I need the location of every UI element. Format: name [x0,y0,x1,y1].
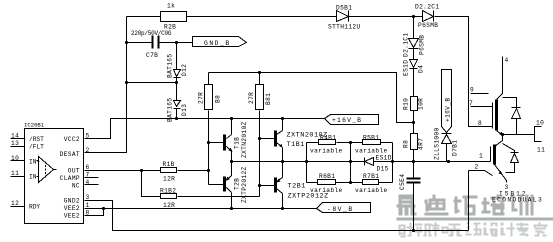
pin stub CLAMP [85,177,99,179]
capacitor C7B 220p/50V/C0G [127,30,193,59]
resistor R8 4R7 [403,134,425,151]
wire base tie left [208,143,210,185]
svg-text:11: 11 [537,147,545,154]
svg-text:27R: 27R [248,92,255,104]
svg-text:VEE2: VEE2 [64,213,80,220]
svg-text:4R7: 4R7 [418,138,425,150]
resistor B8 27R [198,73,222,143]
svg-text:7: 7 [469,100,473,107]
svg-text:R1B2: R1B2 [160,188,176,195]
diode D13 BAT165 [167,83,189,123]
svg-text:P6SMB: P6SMB [418,22,438,29]
diode D7B1 ZLLS1000 [434,127,459,161]
wire y=83 stub [127,82,177,84]
emitter [497,131,503,136]
svg-text:VCC2: VCC2 [64,136,80,143]
driver IC20B1 [11,122,99,224]
diode D12 BAT165 [175,41,178,44]
wire top run y=16 [127,16,161,18]
svg-text:10: 10 [11,155,19,162]
svg-text:D2.1C1: D2.1C1 [403,33,410,57]
svg-text:1k: 1k [167,3,175,10]
svg-text:4: 4 [505,57,509,64]
wire network verticals [306,143,308,183]
svg-text:R5B1: R5B1 [363,134,379,141]
resistor R7B1 variable [355,173,388,194]
svg-text:B81: B81 [265,93,272,105]
wire top row [307,142,319,144]
diode D2.2C1 P6SMB [415,4,439,30]
svg-text:D7B1: D7B1 [452,140,459,156]
svg-text:T1B1: T1B1 [287,141,305,149]
svg-text:C5E4: C5E4 [399,174,406,190]
transistor T2B ZXTP2012Z [209,162,249,209]
net flag +16V_B [325,115,379,125]
wire emitter node pins 10/11 [501,120,545,154]
igbt upper [469,57,521,136]
resistor R4B1 variable [310,134,343,154]
pin stub NC [85,184,99,186]
svg-text:12R: 12R [163,176,175,183]
svg-text:8: 8 [478,120,482,127]
svg-text:ZXTN2010Z: ZXTN2010Z [241,121,248,158]
node base junctions right pair [258,137,261,140]
wire gate row [232,161,491,163]
svg-text:D5B1: D5B1 [336,5,352,12]
resistor B81 27R [248,73,272,197]
svg-text:ZLLS1000: ZLLS1000 [434,127,441,160]
svg-text:C7B: C7B [146,52,158,59]
svg-text:9: 9 [470,87,474,94]
svg-text:27R: 27R [198,92,205,104]
svg-text:10: 10 [536,120,544,127]
transistor T1B1 ZXTN2010Z [260,119,328,162]
wire DESAT riser [85,17,127,153]
freewheel diode upper [503,98,517,108]
pin 9 stub [471,93,489,95]
wire OUT row [85,170,161,172]
svg-text:NC: NC [72,183,80,190]
svg-text:3: 3 [86,194,90,201]
svg-text:variable: variable [355,148,388,155]
svg-text:P6SMB: P6SMB [419,35,426,55]
svg-text:1: 1 [86,202,90,209]
transistor T2B1 ZXTP2012Z [260,162,329,209]
wire VCC2 to +16V rail [85,119,325,139]
svg-text:DESAT: DESAT [60,151,80,158]
svg-text:1: 1 [479,153,483,160]
svg-text:2: 2 [475,164,479,171]
svg-text:GND_B: GND_B [204,40,231,47]
svg-text:T2B: T2B [234,178,241,190]
svg-text:variable: variable [355,187,388,194]
svg-text:R7B1: R7B1 [363,173,379,180]
svg-text:BAT165: BAT165 [167,54,174,78]
wire VEE2 rail y=208 [85,208,317,210]
svg-text:IC20B1: IC20B1 [24,122,45,129]
svg-text:R8: R8 [403,140,410,148]
svg-text:R1B: R1B [163,161,175,168]
wire GND2 run y=231 [85,201,469,231]
svg-text:CLAMP: CLAMP [60,175,80,182]
svg-text:ECONODUAL3: ECONODUAL3 [492,197,543,204]
svg-text:12: 12 [11,200,19,207]
svg-text:+16V_B: +16V_B [332,117,362,124]
svg-text:5: 5 [86,132,90,139]
wire drop to R1B2 [142,171,161,197]
svg-text:6: 6 [86,164,90,171]
resistor R2B 1k [161,3,187,31]
svg-text:12R: 12R [163,202,175,209]
svg-text:+16V_B: +16V_B [445,98,452,122]
svg-text:13: 13 [11,140,19,147]
svg-text:D13: D13 [181,104,188,116]
diode D5B1 STTH112U [328,5,361,31]
svg-text:D2.2C1: D2.2C1 [415,4,439,11]
resistor R6B1 variable [310,173,343,194]
svg-text:T2B1: T2B1 [288,183,306,191]
pin 2 kelvin [469,171,493,176]
capacitor C5E4 [399,174,421,231]
svg-text:/FLT: /FLT [29,144,44,151]
net flag GND_B [193,37,247,48]
svg-text:OUT: OUT [68,168,80,175]
svg-text:D4: D4 [418,65,425,73]
svg-text:220p/50V/C0G: 220p/50V/C0G [131,30,172,37]
svg-text:R10: R10 [403,98,410,110]
wire VEE2 pin8 join [85,209,104,216]
svg-text:D15: D15 [377,166,389,173]
svg-text:10R: 10R [418,98,425,110]
svg-text:ES1D: ES1D [376,155,392,162]
svg-text:RDY: RDY [29,204,40,211]
svg-text:/RST: /RST [29,136,44,143]
svg-text:2: 2 [86,147,90,154]
svg-text:14: 14 [11,132,19,139]
svg-text:STTH112U: STTH112U [328,24,361,31]
svg-text:11: 11 [11,170,19,177]
svg-text:ES1D: ES1D [403,60,410,76]
svg-text:R6B1: R6B1 [319,173,335,180]
freewheel diode lower [503,144,515,153]
transistor T1B ZXTN2010Z [209,119,249,162]
zener D2.1C1 P6SMB [403,33,426,57]
svg-text:T1B: T1B [234,137,241,149]
collector pin 4 [497,57,503,100]
amp triangle [39,157,54,183]
diode D4 ES1D [403,60,425,77]
svg-text:ZXTP2012Z: ZXTP2012Z [241,166,248,203]
diode D15 ES1D [365,155,392,173]
svg-text:D12: D12 [181,64,188,76]
junction dot top column [412,15,415,18]
svg-text:R4B1: R4B1 [320,134,336,141]
wire y=72 run [209,73,414,123]
svg-text:B8: B8 [215,95,222,103]
watermark line1 yi-di-tuo-pei-xun [397,195,553,221]
svg-text:-8V_B: -8V_B [327,206,354,213]
wire bottom row [307,182,318,184]
resistor R10 10R [403,97,425,111]
net flag +16V_B vertical [442,70,452,133]
resistor R1B2 12R [160,188,177,210]
resistor R5B1 variable [355,134,388,154]
resistor R1B 12R [161,161,177,183]
svg-text:variable: variable [310,187,343,194]
watermark line2 she-pin-he-tian-xian-she-ji-zhuan-jia [399,223,548,238]
svg-text:variable: variable [310,148,343,155]
igbt lower [469,135,544,231]
pin 7 stub [471,106,493,108]
svg-text:GND2: GND2 [64,198,80,205]
wire desat column [413,17,415,39]
net flag -8V_B [317,203,371,214]
svg-text:VEE2: VEE2 [64,205,80,212]
